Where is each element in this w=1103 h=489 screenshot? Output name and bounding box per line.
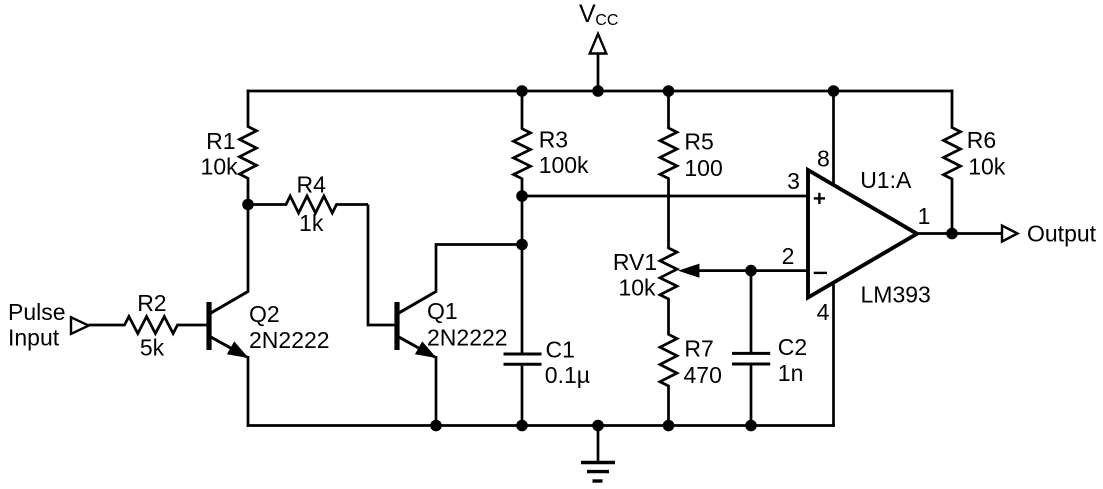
svg-text:RV1: RV1 [613, 249, 657, 275]
svg-text:10k: 10k [618, 275, 656, 301]
label R6 10k [968, 154, 1006, 180]
svg-text:C2: C2 [778, 334, 807, 360]
svg-text:R6: R6 [967, 127, 996, 153]
svg-text:100: 100 [684, 155, 722, 181]
wire op-amp pin 4 [832, 282, 835, 427]
svg-text:0.1µ: 0.1µ [545, 362, 590, 388]
wiper arrow RV1 [680, 264, 809, 277]
svg-text:2: 2 [782, 243, 795, 269]
node C1 bottom junction [516, 420, 528, 432]
node output junction [946, 228, 958, 240]
node C2 bottom junction [745, 420, 757, 432]
svg-text:CC: CC [595, 12, 618, 29]
svg-text:100k: 100k [539, 152, 589, 178]
svg-text:Q1: Q1 [427, 298, 458, 324]
transistor Q1 [394, 292, 436, 358]
svg-text:3: 3 [787, 168, 800, 194]
pin label 2 [782, 243, 795, 269]
pin label 8 [817, 146, 830, 172]
ground [581, 426, 615, 482]
label R2 [137, 290, 166, 316]
label 470 [684, 362, 722, 388]
transistor Q2 [206, 292, 248, 358]
wire R4 to Q1 base [368, 205, 394, 326]
svg-text:1k: 1k [299, 210, 324, 236]
svg-text:5k: 5k [140, 334, 165, 360]
label Q2 [249, 301, 280, 327]
label 0.1u [545, 362, 590, 388]
label 1n [778, 360, 804, 386]
svg-text:8: 8 [817, 146, 830, 172]
wire Q1 collector [436, 245, 522, 293]
output port: Output [1002, 221, 1097, 247]
node R5 top junction [663, 85, 675, 97]
svg-text:R1: R1 [206, 128, 235, 154]
label 1k [299, 210, 324, 236]
node Vcc junction [592, 85, 604, 97]
svg-text:1: 1 [918, 203, 931, 229]
label 5k [140, 334, 165, 360]
capacitor C1 [504, 196, 542, 426]
op-amp U1:A LM393 [808, 170, 917, 298]
wire op-amp pin 8 [832, 91, 835, 186]
power Vcc symbol [590, 34, 607, 91]
svg-text:U1:A: U1:A [860, 167, 912, 193]
svg-text:470: 470 [684, 362, 722, 388]
label R7 [684, 336, 713, 362]
label Q1 2N2222 [427, 325, 508, 351]
label Q1 [427, 298, 458, 324]
resistor R4 [248, 196, 368, 213]
label R5 [684, 129, 713, 155]
node Q1 emitter junction [430, 420, 442, 432]
input port: Pulse Input [8, 299, 89, 350]
resistor R2 [89, 317, 207, 334]
label R1 10k [201, 154, 239, 180]
wire top rail [247, 90, 954, 93]
label 100k [539, 152, 589, 178]
resistor R7 [660, 316, 677, 426]
svg-text:10k: 10k [201, 154, 239, 180]
node ground junction [592, 420, 604, 432]
potentiometer RV1 [660, 213, 677, 316]
resistor R1 [240, 90, 257, 205]
label RV1 10k [618, 275, 656, 301]
label R3 [539, 126, 568, 152]
wire op-amp output [917, 232, 1002, 235]
svg-text:2N2222: 2N2222 [427, 325, 508, 351]
svg-text:R7: R7 [684, 336, 713, 362]
pin label 3 [787, 168, 800, 194]
pin label 4 [817, 299, 830, 325]
svg-text:Output: Output [1027, 221, 1097, 247]
label R6 [967, 127, 996, 153]
node R7 bottom junction [663, 420, 675, 432]
label 100 [684, 155, 722, 181]
node R3 top junction [516, 85, 528, 97]
node R3 bottom junction [516, 190, 528, 202]
node C2 top junction [745, 265, 757, 277]
svg-text:V: V [579, 0, 596, 28]
label LM393 [861, 282, 931, 308]
svg-text:Pulse: Pulse [8, 299, 66, 325]
svg-text:10k: 10k [968, 154, 1006, 180]
label C2 [778, 334, 807, 360]
label R4 [296, 172, 326, 198]
wire bottom rail [247, 424, 835, 427]
svg-text:R3: R3 [539, 126, 568, 152]
label C1 [546, 337, 575, 363]
node pin8/R6 rail junction [828, 85, 840, 97]
svg-text:R5: R5 [684, 129, 713, 155]
node R1/R4/Q2 junction [242, 199, 254, 211]
svg-text:2N2222: 2N2222 [249, 327, 330, 353]
label Q2 2N2222 [249, 327, 330, 353]
pin label 1 [918, 203, 931, 229]
resistor R3 [514, 91, 531, 196]
label U1:A [860, 167, 912, 193]
wire R3 to op-amp pin 3 [522, 195, 808, 198]
wire Q2 emitter [247, 356, 250, 427]
svg-text:4: 4 [817, 299, 830, 325]
wire Q2 collector [247, 205, 250, 293]
resistor R5 [660, 91, 677, 213]
node Q1 collector / C1 junction [516, 239, 528, 251]
svg-text:1n: 1n [778, 360, 804, 386]
label RV1 [613, 249, 657, 275]
svg-text:LM393: LM393 [861, 282, 931, 308]
svg-text:R4: R4 [296, 172, 326, 198]
wire Q1 emitter [435, 356, 438, 426]
svg-text:Q2: Q2 [249, 301, 280, 327]
label R1 [206, 128, 235, 154]
svg-text:R2: R2 [137, 290, 166, 316]
capacitor C2 [732, 271, 770, 426]
label Vcc [579, 0, 618, 29]
svg-text:Input: Input [8, 324, 60, 350]
resistor R6 [944, 90, 961, 234]
svg-text:C1: C1 [546, 337, 575, 363]
